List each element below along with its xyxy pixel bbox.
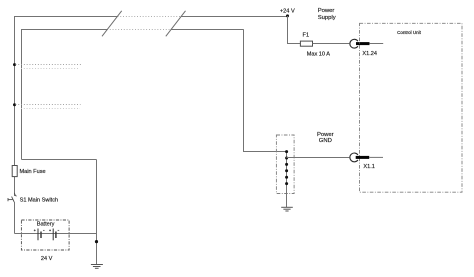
connector X1.24 socket arc bbox=[350, 39, 358, 48]
node: ground bus dot 5 bbox=[285, 176, 288, 179]
label: Power GND bbox=[317, 132, 334, 144]
connector X1.24 pin bar bbox=[356, 42, 370, 45]
node: ground bus dot 2 bbox=[285, 157, 288, 160]
label: X1.1 pin bbox=[363, 164, 375, 170]
label: +24 V net bbox=[280, 8, 295, 14]
control unit U1: enclosure dash-dot box bbox=[360, 23, 463, 192]
svg-text:Main Fuse: Main Fuse bbox=[20, 169, 46, 175]
node: ground bus dot 3 bbox=[285, 163, 288, 166]
label: Control Unit bbox=[397, 30, 422, 35]
label: Max 10 A rating bbox=[307, 51, 331, 57]
svg-text:GND: GND bbox=[319, 138, 332, 144]
wire: +24V top feed, solid left segment bbox=[15, 17, 118, 197]
wire: battery negative vertical to chassis bbox=[96, 160, 98, 265]
battery cell 1 plates bbox=[38, 229, 41, 241]
label: Battery bbox=[37, 222, 55, 228]
wire: ground bus vertical bbox=[286, 152, 288, 208]
ground: chassis ground under battery bbox=[91, 265, 103, 269]
battery cell 2 plates bbox=[53, 229, 56, 241]
connector X1.1 socket arc bbox=[350, 153, 358, 162]
wire: dotted stub branch at upper junction bbox=[16, 64, 82, 66]
svg-text:Supply: Supply bbox=[318, 15, 336, 21]
wire break slash mark, left pair bbox=[102, 11, 122, 37]
wire break slash mark, right pair bbox=[166, 11, 186, 37]
label: Power Supply bbox=[318, 8, 336, 21]
svg-text:S1 Main Switch: S1 Main Switch bbox=[20, 198, 59, 204]
svg-text:Battery: Battery bbox=[37, 222, 55, 228]
svg-text:X1.1: X1.1 bbox=[363, 164, 375, 170]
label: X1.24 pin bbox=[362, 51, 377, 57]
ground: chassis ground under bus bbox=[281, 207, 293, 211]
svg-text:Max 10 A: Max 10 A bbox=[307, 51, 331, 57]
node: ground bus dot 4 bbox=[285, 169, 288, 172]
node: ground bus dot 6 bbox=[285, 182, 288, 185]
label: Main Fuse bbox=[20, 169, 46, 175]
node: junction dot on left bus (lower) bbox=[13, 103, 16, 106]
wire: dotted stub branch at lower junction bbox=[16, 104, 81, 106]
svg-text:Power: Power bbox=[317, 132, 334, 138]
wire: faint dotted stub below lower junction bbox=[21, 108, 80, 110]
wire: inner return horizontal to battery negative bbox=[22, 159, 97, 161]
svg-text:+24 V: +24 V bbox=[280, 8, 295, 14]
wire: ground bus to connector X1.1 bbox=[287, 157, 350, 159]
node: +24V junction dot bbox=[286, 14, 289, 17]
wire: +24V drop to fuse F1 bbox=[288, 16, 301, 44]
connector X1.1 pin bar bbox=[356, 156, 370, 159]
fuse F1 body bbox=[300, 41, 312, 46]
node: junction dot on left bus (upper) bbox=[13, 63, 16, 66]
wire: GND return top feed, dotted break segment bbox=[107, 29, 171, 31]
ground bus: dashed enclosure box bbox=[276, 135, 294, 194]
svg-text:24 V: 24 V bbox=[41, 256, 53, 262]
svg-text:Power: Power bbox=[318, 8, 335, 14]
wire: GND return top feed, solid right segment bbox=[171, 29, 244, 31]
wire: battery loop bottom bbox=[15, 233, 97, 235]
switch S1: blade and contacts bbox=[8, 193, 17, 202]
wire: GND return top feed, solid left segment bbox=[22, 30, 108, 160]
wire: +24V top feed, dotted break segment bbox=[118, 16, 182, 18]
wire: X1.1 pin lead into control unit bbox=[369, 156, 383, 158]
node: battery negative junction dot bbox=[95, 240, 98, 243]
wire: switch bottom to battery level bbox=[14, 202, 16, 234]
label: S1 Main Switch bbox=[20, 198, 59, 204]
svg-text:F1: F1 bbox=[303, 32, 310, 38]
node: ground bus dot 1 bbox=[285, 150, 288, 153]
svg-text:X1.24: X1.24 bbox=[362, 51, 377, 57]
battery cell 2 polarity marks bbox=[49, 229, 59, 231]
wire: return drop from top feed to GND bus bbox=[244, 30, 287, 152]
wire: faint dotted stub below upper junction bbox=[21, 68, 79, 70]
label: 24 V battery voltage bbox=[41, 256, 53, 262]
wire: fuse F1 to connector X1.24 bbox=[313, 43, 350, 45]
wire: X1.24 pin lead into control unit bbox=[369, 43, 383, 45]
wire: +24V top feed, solid right segment to +24V node bbox=[181, 16, 288, 18]
svg-text:Control Unit: Control Unit bbox=[397, 30, 422, 35]
label: F1 bbox=[303, 32, 310, 38]
battery cell 1 polarity marks bbox=[34, 229, 45, 231]
fuse: Main Fuse body bbox=[12, 166, 17, 177]
battery B1: enclosure dashed box bbox=[21, 220, 69, 250]
